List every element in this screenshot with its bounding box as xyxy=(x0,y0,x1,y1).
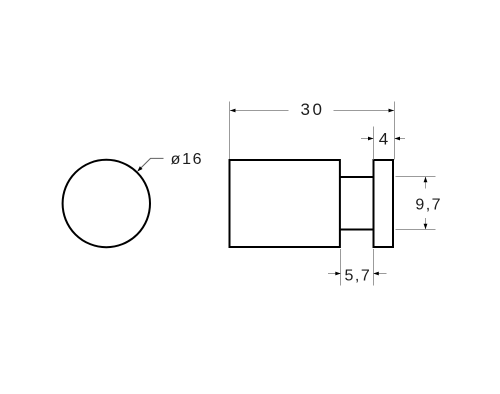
dim 5,7: left arrow (points right) xyxy=(335,272,341,276)
dim 9,7: bottom extension line xyxy=(396,229,436,231)
dim 30: right arrow xyxy=(389,109,395,113)
dim 9,7: dimension line bottom segment xyxy=(425,218,427,230)
dim 5,7: right arrow (points left) xyxy=(373,272,379,276)
svg-text:ø16: ø16 xyxy=(171,151,204,168)
svg-text:30: 30 xyxy=(301,100,325,119)
dim 9,7: top extension line xyxy=(396,176,436,178)
flange outline xyxy=(374,160,394,247)
dim 30: dimension line left segment xyxy=(230,110,289,112)
dim 30: left extension line xyxy=(229,102,231,160)
dim 5,7: left extension line xyxy=(340,249,342,286)
dim 4: dimension line left segment xyxy=(361,138,373,140)
svg-text:5,7: 5,7 xyxy=(345,267,372,284)
dim 4: left arrow (points right) xyxy=(368,137,374,141)
neck top line xyxy=(340,176,375,178)
dim 9,7: top arrow (points up) xyxy=(424,177,428,183)
dim 4: dimension line right segment xyxy=(395,138,405,140)
dim 9,7: bottom arrow (points down) xyxy=(424,224,428,230)
leader arrowhead xyxy=(136,166,143,173)
dim 4: left extension line xyxy=(373,127,375,160)
circle (front view, ø16) xyxy=(63,160,150,247)
dim 5,7: right extension line xyxy=(373,249,375,286)
dim 5,7: dimension line left segment xyxy=(328,273,341,275)
dim 5,7: dimension line right segment xyxy=(374,273,387,275)
dim 30: left arrow xyxy=(230,109,236,113)
leader line to ø16 label xyxy=(138,158,163,170)
dim 30: dimension line right segment xyxy=(334,110,395,112)
svg-text:9,7: 9,7 xyxy=(415,197,442,214)
dim 30: right extension line (shared with dim 4) xyxy=(394,102,396,160)
knob body outline (side view) xyxy=(230,160,340,247)
dim 9,7: dimension line top segment xyxy=(425,177,427,189)
neck bottom line xyxy=(340,229,375,231)
dim 4: right arrow (points left) xyxy=(395,137,401,141)
svg-text:4: 4 xyxy=(379,130,388,149)
